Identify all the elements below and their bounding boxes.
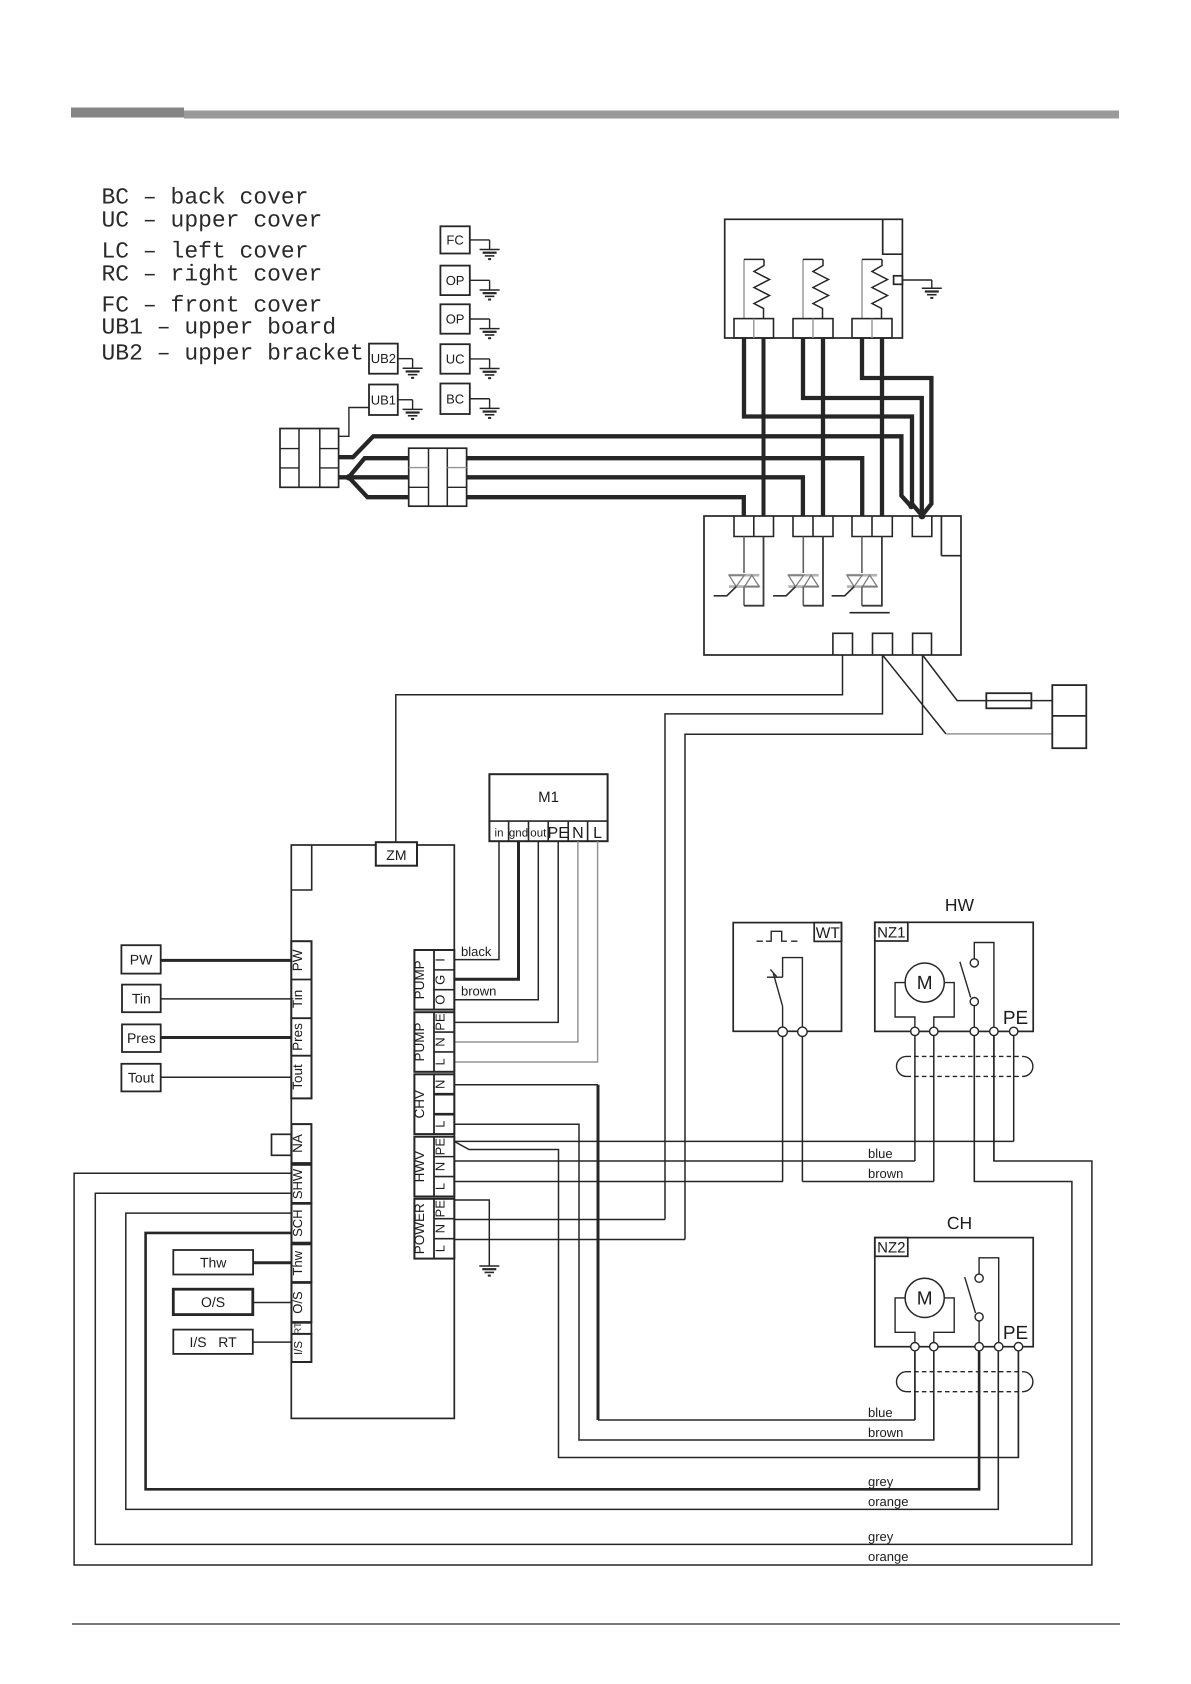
svg-text:grey: grey — [868, 1529, 894, 1544]
svg-text:NZ1: NZ1 — [877, 924, 905, 941]
svg-text:I: I — [433, 958, 448, 962]
motor yoke (NZ1) — [895, 983, 915, 1028]
WT label box — [814, 923, 841, 942]
connector strip POWER — [414, 1199, 454, 1259]
wire NZ2 motor t2 down (brown) — [933, 1351, 935, 1440]
connector CN1 columns — [298, 429, 300, 488]
heating element E3 — [861, 259, 863, 318]
NZ1 label box — [875, 922, 908, 941]
svg-text:HWV: HWV — [412, 1151, 427, 1183]
wire M1 out to PUMP O — [454, 841, 538, 1000]
svg-text:blue: blue — [868, 1146, 893, 1161]
svg-text:black: black — [461, 944, 492, 959]
motor M (NZ1) — [905, 963, 944, 1002]
triac top terminal pair 3 — [852, 516, 892, 537]
triac top terminal pair 1 — [734, 516, 774, 537]
triac Q3 — [832, 537, 882, 606]
left strip Thw cell — [292, 1244, 312, 1282]
connector CN1 row lines — [280, 448, 299, 450]
heavy wire A (CN1 to neutral bus) — [339, 436, 912, 506]
svg-text:FC: FC — [446, 232, 463, 247]
svg-text:UB2 – upper bracket: UB2 – upper bracket — [102, 341, 364, 367]
svg-text:L: L — [433, 1183, 448, 1190]
sensor box I/S RT — [173, 1330, 253, 1354]
svg-text:UB1: UB1 — [371, 392, 396, 407]
svg-text:SCH: SCH — [290, 1209, 305, 1236]
triac Q1 — [714, 537, 764, 606]
connector CN2 columns — [428, 448, 430, 506]
heavy wire C right segment to triac 3 — [467, 458, 863, 516]
wire E3 right terminal drop — [880, 338, 884, 516]
wire B3 to POWER L — [685, 655, 923, 1240]
triac top terminal pair 2 — [793, 516, 833, 537]
left strip O/S cell — [292, 1283, 312, 1322]
svg-text:PE: PE — [1003, 1008, 1028, 1029]
svg-text:PE: PE — [1003, 1323, 1028, 1344]
svg-text:PW: PW — [130, 951, 153, 967]
cover box BC with ground — [440, 384, 469, 415]
switch (NZ2) — [975, 1274, 983, 1282]
wire SHW-1 loop to NZ1 switch NO — [74, 1036, 1092, 1565]
svg-text:I/S: I/S — [293, 1341, 305, 1355]
WT switch — [767, 976, 783, 978]
wire HWV PE branch to NZ2 — [454, 1141, 1018, 1457]
svg-text:CHV: CHV — [412, 1090, 427, 1119]
svg-text:PUMP: PUMP — [412, 1022, 427, 1061]
svg-text:NA: NA — [290, 1134, 305, 1153]
heavy wire junction dot — [346, 474, 352, 480]
motor yoke (NZ2) — [895, 1298, 915, 1343]
wire CHV L to NZ2 motor (brown) — [454, 1124, 934, 1440]
wire E2 right terminal drop — [821, 338, 825, 516]
svg-text:in: in — [495, 828, 504, 840]
heater block corner notch — [883, 219, 903, 254]
junction dot common neutral upper — [908, 504, 914, 510]
wire NZ2 PE down — [1017, 1351, 1019, 1457]
heater block outline — [725, 219, 903, 338]
wire E1 left terminal drop — [744, 338, 922, 516]
wire WT terminal 2 down — [801, 1037, 803, 1182]
WT terminal 2 — [798, 1027, 807, 1036]
svg-text:brown: brown — [868, 1166, 903, 1181]
wire E2 left terminal drop — [803, 338, 922, 516]
svg-text:PE: PE — [433, 1200, 448, 1218]
svg-text:gnd: gnd — [509, 828, 528, 840]
cable sheath (NZ2) — [897, 1372, 907, 1392]
cover box OP with ground — [440, 304, 469, 333]
ground (POWER PE) — [479, 1265, 499, 1267]
motor M (NZ2) — [905, 1278, 944, 1317]
svg-text:PE: PE — [433, 1013, 448, 1031]
triac block corner notch — [941, 555, 961, 557]
wire HWV L (brown) to WT — [454, 1181, 783, 1183]
svg-text:PUMP: PUMP — [412, 960, 427, 999]
svg-text:Pres: Pres — [290, 1023, 305, 1051]
header bar right segment — [184, 111, 1119, 119]
triac top terminal T4 (common) — [912, 516, 932, 537]
svg-text:PW: PW — [290, 949, 305, 971]
svg-text:Tout: Tout — [290, 1064, 305, 1090]
svg-text:brown: brown — [868, 1425, 903, 1440]
wire HWV N (blue) to NZ1 — [454, 1160, 915, 1162]
triac bottom terminal B1 — [833, 633, 853, 655]
board box UB1 with ground — [369, 385, 398, 416]
junction dot common neutral apex — [919, 513, 926, 520]
svg-text:O: O — [433, 995, 448, 1005]
svg-text:M: M — [917, 973, 933, 994]
svg-text:HW: HW — [945, 895, 975, 915]
heating element E2 — [802, 259, 804, 318]
wire Pres to board — [161, 1036, 292, 1039]
wire POWER PE to ground — [454, 1200, 489, 1266]
wire NZ2 switch NO down (orange) — [997, 1351, 999, 1509]
svg-text:PE: PE — [548, 825, 569, 842]
wire SCH-2 loop to NZ2 switch COM (thick) — [146, 1233, 980, 1489]
svg-text:O/S: O/S — [201, 1294, 225, 1310]
svg-text:RT: RT — [293, 1322, 304, 1335]
svg-text:BC: BC — [446, 391, 464, 406]
svg-text:L: L — [593, 825, 602, 842]
svg-text:G: G — [433, 975, 448, 985]
module M1 box — [489, 774, 607, 841]
cable sheath (NZ1) — [897, 1056, 907, 1076]
triac block separator line — [850, 612, 890, 614]
wire M1 PE to PUMP PE — [454, 841, 558, 1022]
sensor box PW — [121, 945, 160, 973]
wire B1 to ZM — [396, 655, 843, 842]
svg-text:OP: OP — [446, 273, 465, 288]
svg-text:UC: UC — [446, 351, 465, 366]
wire POWER L — [454, 1239, 685, 1241]
svg-text:RC – right cover: RC – right cover — [102, 262, 323, 288]
svg-text:Tout: Tout — [128, 1070, 155, 1086]
wire NZ2 motor t1 down (blue) — [914, 1351, 916, 1420]
svg-text:Thw: Thw — [290, 1250, 305, 1275]
svg-text:L: L — [433, 1058, 448, 1065]
board corner notch — [291, 845, 311, 890]
connector strip PUMP — [414, 950, 454, 1010]
left strip RT cell — [292, 1323, 312, 1334]
sensor box Thw — [173, 1250, 253, 1275]
left strip SHW cell — [292, 1165, 312, 1203]
wire NZ1 motor t2 down to brown — [933, 1036, 935, 1182]
triac Q2 — [773, 537, 823, 606]
module ZM box — [376, 842, 417, 866]
left strip PW/Tin/Pres/Tout — [291, 941, 311, 1098]
svg-text:Tin: Tin — [290, 990, 305, 1008]
svg-text:N: N — [433, 1037, 448, 1046]
wire NZ2 switch COM down (grey) — [978, 1351, 980, 1489]
svg-text:POWER: POWER — [412, 1203, 427, 1254]
svg-text:M: M — [917, 1288, 933, 1309]
connector strip CHV — [414, 1074, 454, 1134]
relay box NZ1 outline — [875, 922, 1033, 1031]
sensor box Tout — [121, 1064, 160, 1092]
left strip NA cell — [292, 1124, 312, 1163]
svg-text:orange: orange — [868, 1549, 908, 1564]
ground (heater) — [922, 287, 942, 289]
heavy wire D right segment to triac 1 — [467, 497, 744, 516]
heavy wire B left segment — [339, 475, 409, 479]
terminals (NZ2) — [911, 1343, 919, 1351]
svg-text:out: out — [530, 828, 547, 840]
wire M1 in to PUMP I — [454, 841, 499, 959]
wire NZ1 switch NO jog — [993, 1036, 995, 1161]
heating element E3 terminal block — [852, 319, 892, 338]
connector strip PUMP — [414, 1012, 454, 1072]
heating element E1 terminal block — [734, 319, 774, 338]
sensor box Pres — [122, 1024, 161, 1052]
svg-text:UB1 – upper board: UB1 – upper board — [102, 315, 337, 341]
heavy wire D diagonal — [349, 477, 409, 497]
wire M1 L to PUMP L (gray) — [454, 841, 597, 1062]
wire PW to board — [161, 959, 292, 962]
svg-text:Pres: Pres — [127, 1030, 156, 1046]
wire SCH-1 loop to NZ2 switch NO — [126, 1213, 999, 1509]
heating element E2 terminal block — [793, 319, 833, 338]
heating element E1 — [743, 259, 745, 318]
wire NZ1 PE down — [1013, 1036, 1015, 1142]
relay box NZ2 outline — [875, 1238, 1033, 1347]
wire fuse to aux connector — [1031, 700, 1052, 702]
triac bottom terminal B2 — [873, 633, 893, 655]
NZ2 label box — [875, 1238, 908, 1257]
connector CN1 outline — [280, 429, 339, 488]
svg-text:N: N — [572, 825, 584, 842]
svg-text:Thw: Thw — [200, 1254, 227, 1270]
NA stub box — [272, 1134, 292, 1155]
svg-text:CH: CH — [947, 1213, 972, 1233]
wire to board — [253, 1302, 292, 1304]
switch (NZ1) — [970, 959, 978, 967]
wire UB1 to CN1 — [339, 408, 369, 437]
triac bottom terminal B3 — [913, 633, 932, 655]
wire Tout to board — [161, 1076, 292, 1078]
aux connector (2 cells) — [1052, 685, 1086, 748]
wire B3 diagonal to fuse — [923, 655, 987, 701]
main control board outline — [291, 845, 454, 1418]
wire Tin to board — [161, 998, 292, 1000]
wire B2 diagonal to aux connector — [883, 655, 946, 734]
header bar left segment — [71, 108, 184, 118]
svg-text:UB2: UB2 — [371, 351, 396, 366]
svg-text:SHW: SHW — [290, 1168, 305, 1199]
WT pulse symbol — [757, 940, 763, 942]
svg-text:N: N — [433, 1224, 448, 1233]
svg-text:PE: PE — [433, 1138, 448, 1156]
svg-text:Tin: Tin — [132, 990, 151, 1006]
wire CHV N to NZ2 motor (blue) — [454, 1084, 598, 1086]
svg-text:O/S: O/S — [290, 1291, 305, 1314]
wire E3 left terminal drop — [862, 338, 931, 516]
svg-text:ZM: ZM — [386, 847, 406, 863]
svg-text:M1: M1 — [538, 789, 559, 806]
wire to board — [253, 1261, 291, 1264]
wire to board — [253, 1341, 292, 1343]
board box UB2 with ground — [369, 344, 398, 374]
connector strip HWV — [414, 1137, 454, 1197]
svg-text:I/S RT: I/S RT — [189, 1334, 237, 1350]
heavy wire C diagonal — [349, 458, 409, 477]
svg-text:NZ2: NZ2 — [877, 1240, 905, 1257]
connector CN2 row lines — [409, 467, 429, 469]
connector CN2 outline — [409, 448, 467, 506]
svg-text:OP: OP — [446, 312, 465, 327]
svg-text:WT: WT — [816, 925, 841, 942]
svg-text:N: N — [433, 1162, 448, 1171]
wire SHW-2 loop to NZ1 switch COM — [95, 1036, 1072, 1545]
wire NZ1 switch COM jog — [973, 1036, 975, 1182]
wire B2 to POWER N — [665, 655, 883, 1220]
heavy wire B right segment to triac 2 — [467, 477, 803, 516]
wire E1 right terminal drop — [762, 338, 766, 516]
heater block ground wire — [902, 279, 931, 281]
WT box outline — [733, 923, 841, 1032]
WT terminal 1 — [778, 1027, 787, 1036]
wire WT to NZ1 motor — [802, 1181, 933, 1183]
wire NZ1 motor t1 down to blue — [914, 1036, 916, 1161]
wire M1 gnd to PUMP G (thick) — [454, 841, 518, 979]
sensor box O/S — [173, 1289, 253, 1314]
wire WT terminal 1 down — [782, 1037, 784, 1182]
svg-text:orange: orange — [868, 1494, 908, 1509]
svg-text:L: L — [433, 1121, 448, 1128]
footer rule — [72, 1623, 1120, 1625]
wire HWV PE main run — [454, 1140, 1013, 1142]
triac block outline — [704, 516, 961, 655]
wire POWER N — [454, 1219, 665, 1221]
terminals (NZ1) — [911, 1027, 919, 1035]
svg-text:N: N — [433, 1080, 448, 1089]
sensor box Tin — [122, 985, 161, 1013]
fuse F1 — [986, 700, 1031, 702]
svg-text:grey: grey — [868, 1474, 894, 1489]
svg-text:brown: brown — [461, 984, 496, 999]
wire M1 N to PUMP N (gray) — [454, 841, 578, 1042]
left strip SCH cell — [292, 1204, 312, 1243]
heater block ground tab — [894, 276, 903, 285]
cover box FC with ground — [440, 226, 469, 253]
cover box OP with ground — [440, 266, 469, 296]
svg-text:UC – upper cover: UC – upper cover — [102, 208, 323, 234]
svg-text:blue: blue — [868, 1405, 893, 1420]
svg-text:L: L — [433, 1245, 448, 1252]
cover box UC with ground — [440, 344, 469, 374]
left strip I/S cell — [292, 1334, 312, 1362]
